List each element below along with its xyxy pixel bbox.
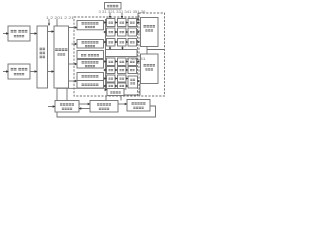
label grid r7c1 (109, 78, 114, 80)
wire into B2 (3, 71, 7, 73)
wire B to W4 (69, 63, 76, 65)
arrowhead into F (53, 105, 56, 108)
bottom box H power (127, 100, 150, 112)
interface box E (107, 89, 124, 96)
arrowhead A to B bottom (52, 70, 55, 73)
label A text3 (40, 56, 46, 59)
wide box W4 (77, 60, 104, 69)
small box grid r5c1 (107, 58, 116, 66)
label grid r5c1 (109, 61, 114, 63)
label grid r2c3 (130, 31, 135, 33)
small box grid r6c1 (107, 67, 116, 74)
arrowhead into W1 (75, 26, 78, 29)
label W4 line1 (82, 61, 99, 63)
label grid r3c1 (109, 41, 114, 43)
label E text (110, 91, 120, 93)
wire into B1 (3, 33, 7, 35)
RF box C transmitter (141, 18, 159, 47)
wire D bottom down (124, 84, 140, 96)
wire B1 to A (30, 33, 36, 35)
leader stub to A top (48, 19, 50, 24)
small box grid r3c1 (107, 39, 116, 47)
label W1 line2 (85, 26, 95, 28)
svg-text:3 31 321 331 341 351 36: 3 31 321 331 341 351 36 (99, 10, 146, 14)
arrowhead into B1 (6, 32, 9, 35)
label C line2 (145, 29, 153, 31)
label B2 text line2 (14, 73, 24, 75)
bottom box G storage (90, 101, 118, 113)
antenna wire right (147, 49, 165, 51)
tall box B controller (54, 26, 69, 88)
arrowhead clock r1c1 (109, 16, 111, 19)
flat band bus box (106, 50, 138, 57)
arrowhead into W2 (75, 43, 78, 46)
wire B2 to A (30, 71, 36, 73)
svg-text:4 401 41: 4 401 41 (127, 57, 146, 61)
arrowhead A to B top (52, 30, 55, 33)
arrowhead B1 to A (35, 32, 38, 35)
label A text2 (40, 52, 46, 55)
clock stub into r1c1 (109, 13, 111, 17)
wire B to W1 (69, 27, 76, 29)
label F line1 (60, 103, 74, 105)
wide box W2 (77, 40, 104, 49)
vertical bus inside frame (105, 19, 107, 89)
small box grid r2c2 (118, 28, 127, 36)
label B1 text line2 (14, 35, 24, 37)
arrowhead into B2 (6, 70, 9, 73)
label grid r6c2 (120, 69, 125, 71)
stub B down into F (56, 88, 58, 100)
small box grid r7c2 (118, 75, 127, 82)
dashed frame digital section (74, 17, 138, 96)
stub into F top second (66, 88, 68, 100)
small box grid r5c3 (128, 58, 137, 66)
label grid r5c3 (130, 61, 135, 63)
label grid r1c2 (120, 22, 125, 24)
label W5 line1 (82, 75, 99, 77)
stub E bottom to G top left (105, 96, 107, 101)
small box grid r2c1 (107, 28, 116, 36)
top clock box T (105, 3, 122, 10)
small box grid r1c3 (128, 19, 137, 27)
small box grid r7c1 (107, 75, 116, 82)
label B1 text line1 (11, 30, 28, 33)
label D line2 (145, 68, 153, 70)
wire G to F (81, 108, 91, 110)
label B text line1 (55, 48, 67, 51)
small box grid r5c2 (118, 58, 127, 66)
clock stub into RF frame (137, 13, 139, 20)
label T text (107, 5, 118, 7)
label grid r8c1 (109, 85, 114, 87)
label grid r6c1 (109, 69, 114, 71)
arrowhead stub band left (109, 48, 111, 51)
arrowhead leader A (48, 24, 50, 27)
arrowhead into E left (105, 88, 108, 91)
wide box W1 (77, 21, 104, 30)
wide box W5 (77, 73, 104, 81)
feedback loop H to F (57, 106, 156, 117)
label grid r7c2 (120, 78, 125, 80)
label D line1 (143, 64, 155, 67)
label grid r8c2 (120, 85, 125, 87)
wide box W6 (77, 81, 104, 89)
arrowhead F to G (88, 103, 91, 106)
tall box A processor (37, 26, 48, 88)
RF box D receiver (141, 54, 159, 84)
small box grid r6c2 (118, 67, 127, 74)
small box grid r3c3 (128, 39, 137, 47)
arrowhead B2 to A (35, 70, 38, 73)
label B2 text line1 (11, 68, 28, 71)
arrowhead stub band right (121, 48, 123, 51)
collector box lower c3 (128, 76, 138, 88)
label W2 line1 (82, 41, 99, 43)
wire A to B top (48, 31, 53, 33)
small box grid r2c3 (128, 28, 137, 36)
label W1 line1 (82, 22, 99, 24)
small box grid r3c2 (118, 39, 127, 47)
label W6 line1 (82, 83, 99, 85)
grid arrows column2 to column3 (126, 21, 129, 87)
label grid r3c2 (120, 41, 125, 43)
label C line1 (143, 25, 155, 28)
label B text line2 (57, 53, 65, 55)
wire G to H (118, 103, 126, 105)
label grid r2c2 (120, 31, 125, 33)
label A text (40, 48, 46, 51)
clock stub into r1c2 (121, 13, 123, 17)
box B1 input module top-left (8, 26, 30, 41)
label grid r6c3 (130, 69, 135, 71)
small box grid r6c3 (128, 67, 137, 74)
arrowhead G to H (125, 103, 128, 106)
wire F to G (79, 103, 89, 105)
label grid r5c2 (120, 61, 125, 63)
label collector line1 (130, 79, 135, 81)
small box grid r1c2 (118, 19, 127, 27)
stub r3c2 to band (122, 46, 124, 48)
stub E bottom to G top right (120, 96, 122, 101)
arrowhead into W4 (75, 63, 78, 66)
grid arrows column1 inputs (104, 21, 107, 87)
wire A to B bottom (48, 71, 53, 73)
label grid r2c1 (109, 31, 114, 33)
label collector line2 (130, 82, 135, 84)
wire into F left (48, 106, 54, 108)
arrowhead G to F (79, 107, 82, 110)
leader stub to B top (56, 19, 58, 26)
wide box W3 (77, 51, 104, 59)
arrowhead clock RF (137, 19, 139, 22)
label G line1 (97, 103, 111, 105)
bottom box F control (55, 101, 79, 113)
grid arrows column1 to column2 (115, 21, 118, 87)
wire C bottom junction (146, 47, 148, 55)
label grid r1c1 (109, 22, 114, 24)
label G line2 (99, 108, 109, 110)
label grid r1c3 (130, 22, 135, 24)
small box grid r8c1 (107, 83, 116, 89)
text labels (46, 10, 146, 61)
arrowhead clock r1c2 (121, 16, 123, 19)
box B2 input module bottom-left (8, 64, 30, 79)
label W4 line2 (85, 65, 95, 67)
label W3 line1 (81, 54, 99, 56)
label F line2 (62, 108, 72, 110)
grid arrows column3 out to RF (137, 21, 141, 82)
small box grid r1c1 (107, 19, 116, 27)
label H line2 (133, 107, 143, 109)
long wire B bottom to E (57, 87, 105, 89)
svg-text:1 2 201 2 21: 1 2 201 2 21 (46, 16, 74, 20)
wire into W2 (72, 43, 76, 45)
small box grid r8c2 (118, 83, 127, 89)
arrowhead into W6 (75, 80, 78, 83)
dashed frame RF section (139, 13, 165, 96)
stub r3c1 to band (109, 46, 111, 48)
label grid r3c3 (130, 41, 135, 43)
label H line1 (131, 102, 145, 104)
label W2 line2 (85, 45, 95, 47)
wire B to W6 (69, 80, 76, 82)
